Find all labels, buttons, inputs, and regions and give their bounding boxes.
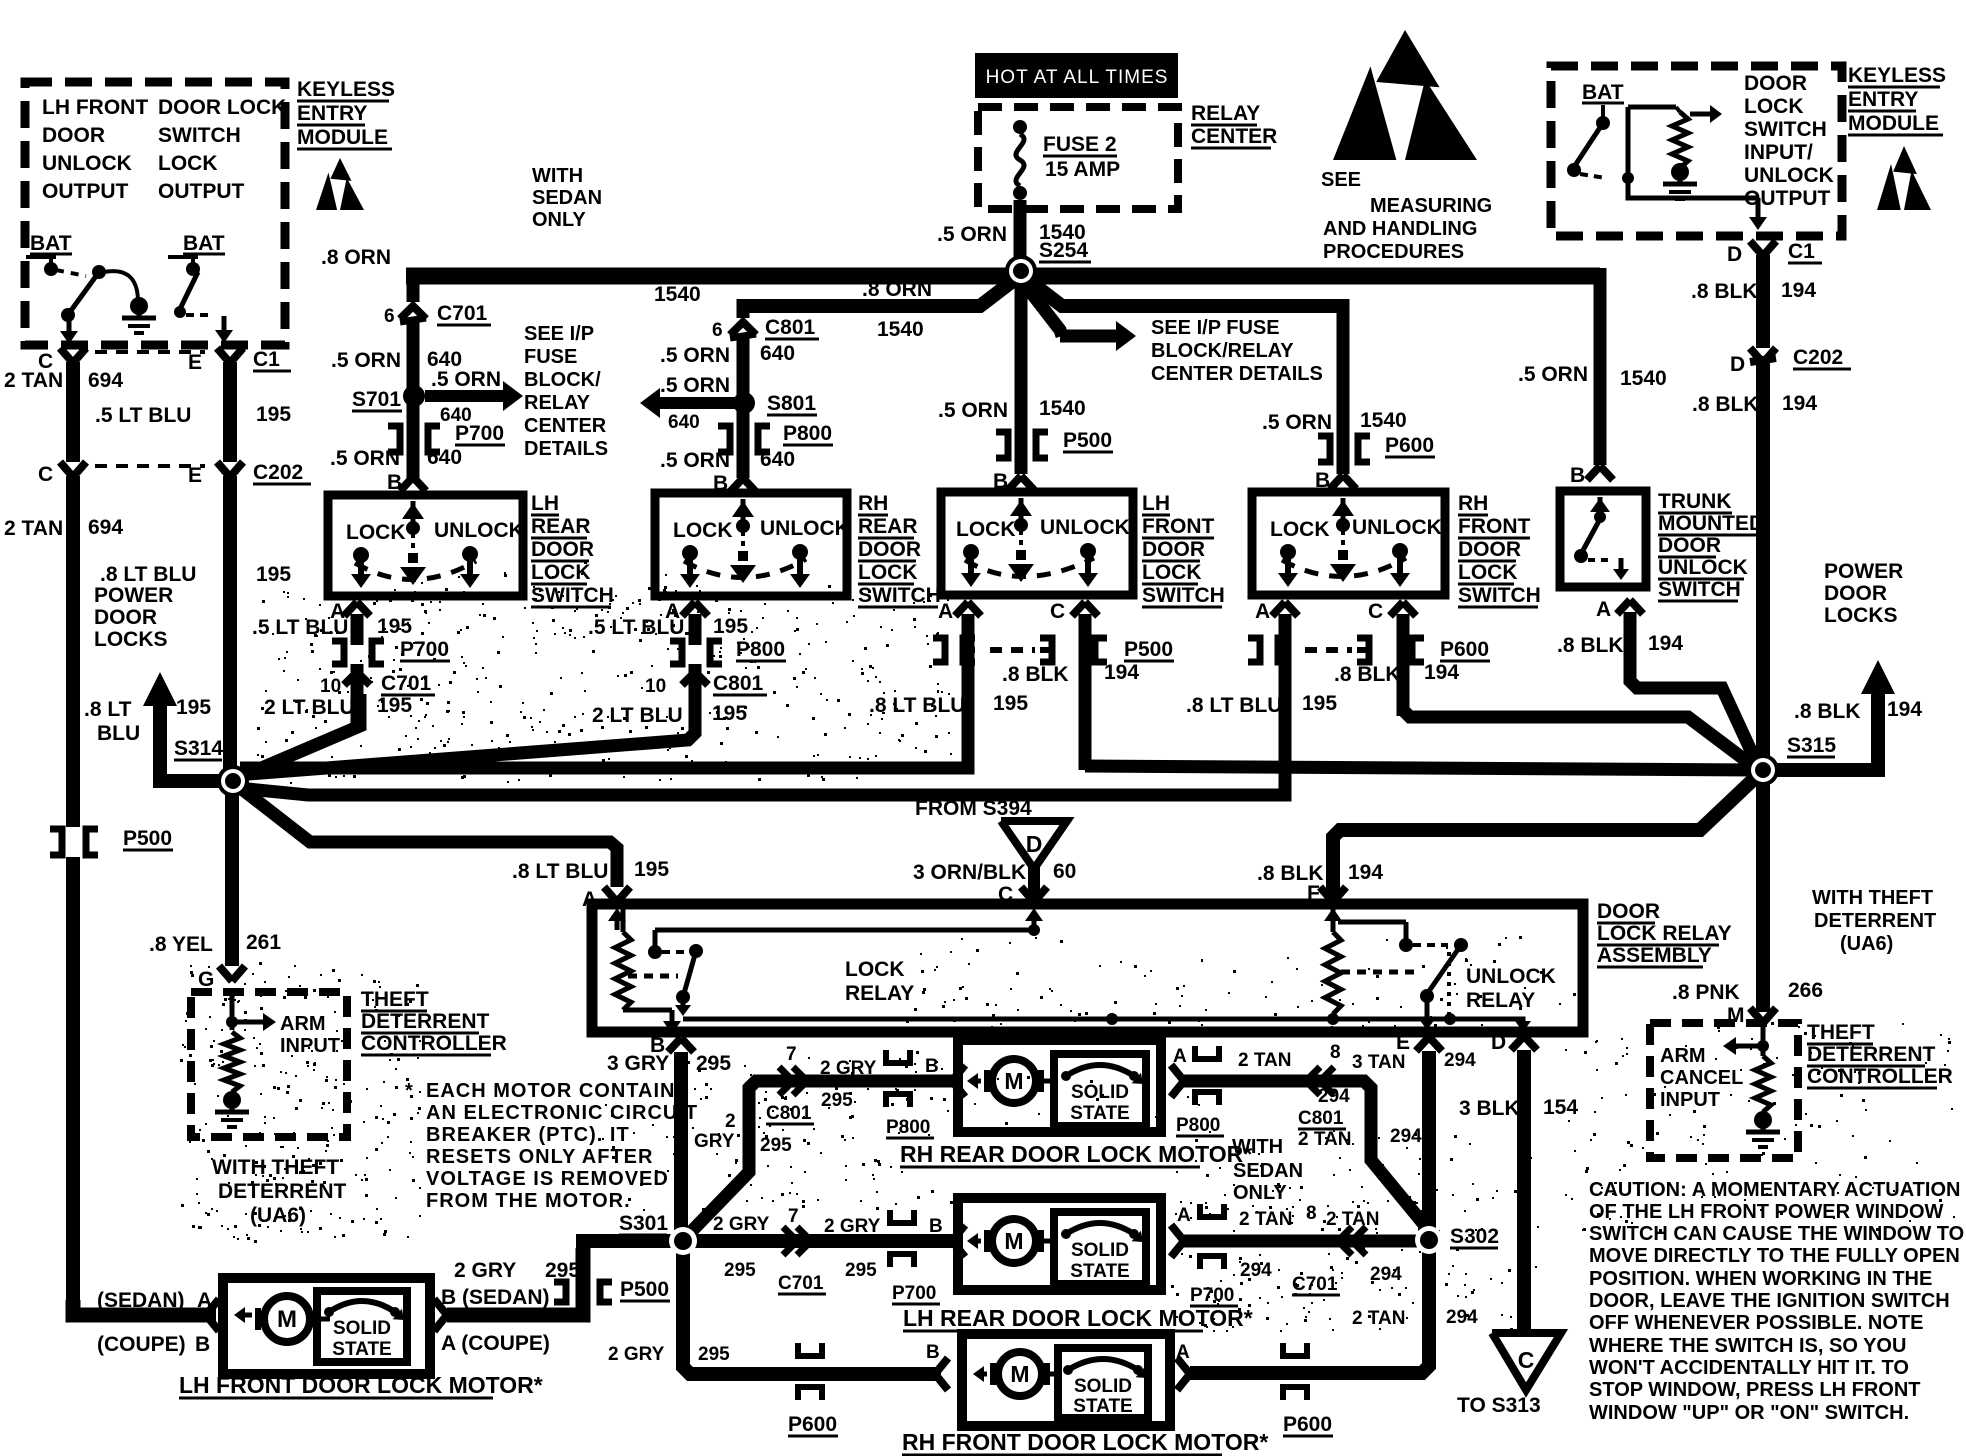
svg-text:VOLTAGE IS REMOVED: VOLTAGE IS REMOVED [426,1168,669,1190]
svg-text:294: 294 [1240,1260,1272,1281]
arm cancel input arrow [1723,1023,1769,1056]
BAT label (switch 2) [183,232,225,255]
keyless entry module (left) dashed box [25,82,285,345]
svg-text:195: 195 [256,403,291,426]
svg-text:P500: P500 [123,827,172,850]
svg-text:195: 195 [634,858,669,881]
svg-text:C202: C202 [1793,346,1843,369]
svg-text:CONTROLLER: CONTROLLER [361,1032,507,1055]
svg-text:ARM: ARM [280,1013,326,1035]
label S314 [174,737,223,760]
svg-text:S314: S314 [174,737,223,760]
svg-text:LOCK RELAY: LOCK RELAY [1597,922,1732,945]
wire bus to trunk switch B [1518,268,1667,465]
svg-text:STATE: STATE [1070,1261,1129,1282]
svg-text:261: 261 [246,931,281,954]
svg-text:194: 194 [1887,698,1922,721]
connector A (LH front) [869,600,1028,717]
svg-text:C1: C1 [1788,240,1815,263]
label WITH SEDAN ONLY [1232,1136,1303,1204]
svg-text:SOLID: SOLID [333,1318,391,1339]
svg-text:DETERRENT: DETERRENT [1807,1043,1936,1066]
svg-text:60: 60 [1053,860,1076,883]
arrow up power door locks (right) [1770,660,1922,777]
svg-text:.8 ORN: .8 ORN [321,246,391,269]
label RH FRONT DOOR LOCK MOTOR* [902,1429,1268,1455]
ground (left module) [104,271,156,333]
resistor (arm input) [224,1032,240,1092]
solid state arc (LH rear) [1061,1223,1143,1242]
svg-text:.5 ORN: .5 ORN [1262,411,1332,434]
svg-text:LOCK: LOCK [1270,518,1330,541]
svg-text:1540: 1540 [654,283,701,306]
svg-text:295: 295 [845,1260,877,1281]
wire fan S314 to LH FRONT switch A [240,622,968,768]
svg-text:8: 8 [1330,1042,1341,1063]
svg-text:M: M [1004,1228,1023,1254]
svg-text:M: M [1004,1068,1023,1094]
module text DOOR LOCK SWITCH LOCK OUTPUT [158,96,286,203]
svg-text:OFF WHENEVER POSSIBLE. NOTE: OFF WHENEVER POSSIBLE. NOTE [1589,1312,1923,1334]
connector P800 (feed) [660,408,833,478]
junction S315 (overlay) [1747,754,1779,786]
note EACH MOTOR CONTAINS [405,1080,698,1212]
svg-text:2 LT BLU: 2 LT BLU [592,704,683,727]
svg-text:S301: S301 [619,1212,668,1235]
svg-text:E: E [188,351,202,374]
switch S unlock-output [168,257,200,318]
wire LH front motor B to S301 [447,1248,583,1315]
svg-text:P700: P700 [892,1283,936,1304]
label S701 [352,388,402,411]
theft deterrent controller (right) dashed box [1650,1023,1798,1158]
svg-text:P600: P600 [1385,434,1434,457]
svg-text:S801: S801 [767,392,816,415]
svg-text:DOOR: DOOR [1744,72,1807,95]
ESD symbol (left module) [316,158,364,210]
connector P600 (below RH front, dashed) [1248,638,1490,662]
svg-text:P800: P800 [736,638,785,661]
svg-text:640: 640 [760,448,795,471]
svg-text:DOOR: DOOR [1597,900,1660,923]
svg-text:.8 BLK: .8 BLK [1692,393,1759,416]
svg-text:640: 640 [427,446,462,469]
svg-text:P500: P500 [1063,429,1112,452]
svg-text:SOLID: SOLID [1071,1240,1129,1261]
bus .8 ORN main [321,246,1600,306]
label ARM CANCEL INPUT [1660,1045,1743,1111]
label THEFT DETERRENT CONTROLLER (right) [1807,1021,1953,1088]
svg-text:AND HANDLING: AND HANDLING [1323,218,1477,240]
svg-text:A: A [1596,598,1611,621]
svg-text:.5 ORN: .5 ORN [431,368,501,391]
connector C701 (left, motor row) [713,1206,943,1304]
relay output line [683,1013,1523,1025]
svg-text:D: D [1727,243,1742,266]
wire S302 to RH front motor [1190,1240,1478,1373]
svg-text:1540: 1540 [1039,397,1086,420]
label WITH THEFT DETERRENT (UA6) [212,1156,347,1227]
label KEYLESS ENTRY MODULE (right) [1848,64,1946,135]
svg-text:B: B [925,1056,939,1077]
labels A 2 TAN (RH rear right) [1173,1042,1341,1071]
svg-text:194: 194 [1782,392,1817,415]
svg-text:E: E [188,464,202,487]
svg-text:640: 640 [668,412,700,433]
label TRUNK MOUNTED DOOR UNLOCK SWITCH [1658,490,1764,601]
svg-text:195: 195 [713,615,748,638]
arrow S801 to fuse block note [640,374,740,433]
triangle connector D FROM S394 [915,797,1067,869]
svg-text:CAUTION: A MOMENTARY ACTUATION: CAUTION: A MOMENTARY ACTUATION [1589,1179,1960,1201]
BAT label (right module) [1582,81,1624,104]
connector C801 (left, motor row) [766,1044,877,1124]
solid state box (LH front) [317,1291,407,1362]
svg-text:LOCK: LOCK [346,521,406,544]
label RH REAR DOOR LOCK MOTOR* [900,1141,1252,1167]
svg-text:.5 ORN: .5 ORN [937,223,1007,246]
svg-text:LOCK: LOCK [1142,561,1202,584]
svg-text:194: 194 [1781,279,1816,302]
svg-text:.8 PNK: .8 PNK [1672,981,1740,1004]
connector P700 (feed) [330,400,505,478]
svg-text:294: 294 [1446,1307,1478,1328]
svg-text:DOOR: DOOR [1658,534,1721,557]
labels A 2 TAN (LH rear right) [1177,1203,1379,1230]
svg-text:.5 ORN: .5 ORN [330,447,400,470]
svg-text:OUTPUT: OUTPUT [42,180,129,203]
ESD symbol (right module) [1877,146,1931,210]
motor M (LH front) [234,1296,330,1342]
connector P500 (below LH front, dashed) [933,638,1174,662]
wire relay B to S301 [607,1052,731,1241]
connector C triangle TO S313 [1457,1333,1561,1417]
motor M (LH rear) [967,1219,1054,1263]
connector A (LH rear) [252,600,412,645]
connector C801 pin 10 [592,664,767,727]
svg-text:F: F [1307,882,1320,905]
svg-text:P700: P700 [1190,1285,1234,1306]
svg-text:DOOR: DOOR [1458,538,1521,561]
connector C202 row [38,461,311,487]
wire relay D to connector C triangle [1459,1050,1578,1333]
door lock relay assembly box [592,904,1583,1032]
connector C701 (right, motor row) [1190,1227,1402,1306]
svg-text:DOOR: DOOR [42,124,105,147]
svg-text:MODULE: MODULE [297,126,388,149]
svg-text:.5 ORN: .5 ORN [331,349,401,372]
wire fan S314 to relay A [238,786,617,887]
svg-text:DOOR: DOOR [858,538,921,561]
label KEYLESS ENTRY MODULE (left) [297,78,395,149]
connector P600 (feed) [1318,434,1435,462]
scan noise (below note) [602,1050,961,1211]
svg-text:CENTER: CENTER [524,415,607,437]
svg-text:STATE: STATE [1070,1103,1129,1124]
junction S314 [218,766,248,796]
connector A (RH rear) [588,600,748,645]
svg-text:INPUT/: INPUT/ [1744,141,1813,164]
svg-text:FRONT: FRONT [1458,515,1530,538]
unlock output dashes and arrow [186,315,233,343]
solid state arc (RH rear) [1061,1065,1143,1084]
trunk switch internals [1574,497,1629,580]
svg-text:BREAKER (PTC). IT: BREAKER (PTC). IT [426,1124,630,1146]
BAT label (switch 1) [30,232,72,255]
svg-text:M: M [1010,1361,1029,1387]
svg-text:694: 694 [88,369,123,392]
ground (theft left) [215,1091,249,1127]
wire LH rear motor to S302 [1184,1235,1429,1248]
svg-text:ENTRY: ENTRY [297,102,367,125]
svg-text:C701: C701 [778,1273,824,1294]
connector B (LH front switch) [993,470,1034,493]
svg-text:G: G [198,968,214,991]
label UNLOCK RELAY [1466,965,1556,1012]
motor M (RH front) [973,1352,1058,1396]
svg-text:OF THE LH FRONT POWER WINDOW: OF THE LH FRONT POWER WINDOW [1589,1201,1944,1223]
svg-text:295: 295 [821,1090,853,1111]
svg-text:STATE: STATE [1073,1396,1132,1417]
svg-text:.5 ORN: .5 ORN [660,449,730,472]
wire .5 LT BLU 195 [95,362,291,462]
svg-text:C801: C801 [1298,1108,1344,1129]
module text LH FRONT DOOR UNLOCK OUTPUT [42,96,148,203]
junction S314 (overlay) [217,765,249,797]
svg-text:(UA6): (UA6) [1840,933,1893,955]
svg-text:HOT AT ALL TIMES: HOT AT ALL TIMES [986,67,1169,88]
label DOOR LOCK RELAY ASSEMBLY [1597,900,1732,967]
svg-text:LH FRONT DOOR LOCK MOTOR*: LH FRONT DOOR LOCK MOTOR* [179,1372,543,1398]
svg-text:S315: S315 [1787,734,1836,757]
svg-text:P800: P800 [783,422,832,445]
svg-text:SWITCH: SWITCH [531,584,614,607]
svg-text:294: 294 [1370,1264,1402,1285]
svg-text:15 AMP: 15 AMP [1045,158,1120,181]
connector C701 pin 10 [264,664,435,730]
connector C801 (right, motor row) [1176,1067,1422,1150]
svg-text:LOCK: LOCK [1744,95,1804,118]
svg-text:BAT: BAT [183,232,225,255]
svg-text:D: D [1026,831,1043,857]
svg-text:3 TAN: 3 TAN [1352,1052,1405,1073]
connector B (RH front switch) [1315,469,1356,492]
svg-text:.5 LT BLU: .5 LT BLU [252,616,348,639]
caution note text [1589,1179,1964,1424]
wire S254 to LH front switch B [938,280,1086,474]
svg-text:194: 194 [1348,861,1383,884]
svg-text:195: 195 [377,694,412,717]
svg-text:ONLY: ONLY [532,209,586,231]
svg-text:FRONT: FRONT [1142,515,1214,538]
svg-text:STATE: STATE [332,1339,391,1360]
svg-text:WITH THEFT: WITH THEFT [1812,887,1933,909]
svg-text:.8 LT BLU: .8 LT BLU [1186,694,1282,717]
svg-text:WITH: WITH [532,165,583,187]
svg-text:D: D [1730,353,1745,376]
svg-text:.8 BLK: .8 BLK [1691,280,1758,303]
connector B (trunk switch) [1570,464,1613,487]
label POWER DOOR LOCKS (right) [1824,560,1903,627]
connector B (LH rear switch) [387,471,426,494]
unlock relay linkage (dashed) [1341,970,1415,975]
svg-text:STOP WINDOW, PRESS LH FRONT: STOP WINDOW, PRESS LH FRONT [1589,1379,1921,1401]
svg-text:S701: S701 [352,388,401,411]
svg-text:.5 ORN: .5 ORN [660,344,730,367]
label RELAY CENTER [1191,102,1277,148]
svg-text:CONTROLLER: CONTROLLER [1807,1065,1953,1088]
svg-text:LH FRONT: LH FRONT [42,96,148,119]
svg-text:UNLOCK: UNLOCK [1466,965,1556,988]
svg-text:(UA6): (UA6) [250,1204,306,1227]
svg-text:A (COUPE): A (COUPE) [441,1332,550,1355]
svg-text:.5 ORN: .5 ORN [938,399,1008,422]
svg-text:KEYLESS: KEYLESS [1848,64,1946,87]
svg-text:S302: S302 [1450,1225,1499,1248]
solid state box (LH rear) [1054,1212,1146,1284]
unlock relay contact branch [1338,922,1413,952]
svg-text:SOLID: SOLID [1074,1376,1132,1397]
svg-text:DOOR, LEAVE THE IGNITION SWITC: DOOR, LEAVE THE IGNITION SWITCH [1589,1290,1950,1312]
switch S lock-output contact [26,257,58,276]
svg-text:BAT: BAT [30,232,72,255]
svg-text:DETERRENT: DETERRENT [361,1010,490,1033]
svg-text:INPUT: INPUT [280,1035,340,1057]
LH rear door lock motor box [958,1198,1161,1290]
svg-text:.8 BLK: .8 BLK [1334,663,1401,686]
connector A (RH front) [1186,600,1337,717]
unlock relay armature [1413,938,1468,1030]
svg-text:LOCKS: LOCKS [94,628,168,651]
wire trunk A to S315 [1630,612,1758,766]
motor entry arrow (RH front) [926,1342,948,1390]
svg-text:P500: P500 [1124,638,1173,661]
svg-text:SEE I/P FUSE: SEE I/P FUSE [1151,317,1280,339]
svg-text:SWITCH: SWITCH [158,124,241,147]
connector D (relay bottom) [1491,1031,1537,1054]
svg-text:SWITCH: SWITCH [1458,584,1541,607]
svg-text:194: 194 [1648,632,1683,655]
svg-text:CANCEL: CANCEL [1660,1067,1743,1089]
motor entry arrow (LH front left) [206,1299,219,1331]
svg-text:P600: P600 [1283,1413,1332,1436]
connector B (RH rear switch) [713,472,756,495]
svg-text:B: B [195,1333,210,1356]
module internal node wire [1622,105,1722,184]
note SEE I/P FUSE BLOCK/RELAY CENTER DETAILS (left) [524,323,608,460]
arrow up POWER DOOR LOCKS feed [84,672,233,788]
svg-text:WITH THEFT: WITH THEFT [212,1156,339,1179]
svg-text:2 GRY: 2 GRY [824,1216,881,1237]
junction S301 [674,1232,692,1250]
svg-text:A: A [582,888,597,911]
svg-text:2 GRY: 2 GRY [608,1344,665,1365]
svg-text:P800: P800 [886,1117,930,1138]
svg-text:.5 LT BLU: .5 LT BLU [95,404,191,427]
svg-text:UNLOCK: UNLOCK [1352,516,1442,539]
label S315 [1787,734,1836,757]
bus .8 ORN branch right [1028,280,1343,306]
svg-text:(COUPE): (COUPE) [97,1333,186,1356]
label SEDAN/COUPE pins [97,1289,212,1356]
label ARM INPUT [280,1013,340,1057]
arm input wire + arrow [226,992,276,1031]
label DOOR LOCK SWITCH INPUT/UNLOCK OUTPUT [1744,72,1834,210]
svg-text:OUTPUT: OUTPUT [1744,187,1831,210]
svg-text:2 TAN: 2 TAN [1238,1050,1291,1071]
connector P500 (motor feed) [554,1278,670,1302]
label S801 [767,392,817,415]
motor exit arrow (LH rear) [1171,1225,1184,1257]
wire S301 to RH rear motor [687,1081,958,1236]
module output wire [1628,182,1767,230]
label LH REAR DOOR LOCK MOTOR* [903,1305,1253,1331]
svg-text:LOCK: LOCK [858,561,918,584]
svg-text:P500: P500 [620,1278,669,1301]
svg-text:LH REAR DOOR LOCK MOTOR*: LH REAR DOOR LOCK MOTOR* [903,1305,1253,1331]
svg-text:C801: C801 [766,1103,812,1124]
label WITH THEFT DETERRENT (UA6) right [1812,887,1936,955]
svg-text:*: * [405,1080,413,1102]
svg-text:UNLOCK: UNLOCK [434,519,524,542]
svg-text:LOCK: LOCK [158,152,218,175]
ESD symbol (top middle) [1333,30,1477,160]
lock relay coil [615,904,681,1034]
svg-text:DOOR: DOOR [531,538,594,561]
LH rear door lock switch [328,495,524,596]
svg-text:POWER: POWER [94,584,173,607]
connector C701 pin 6 [384,302,491,327]
svg-text:SWITCH: SWITCH [1658,578,1741,601]
motor exit arrow (LH front right) [434,1299,447,1331]
svg-text:LOCK: LOCK [673,519,733,542]
label 2 GRY 295 (riser) [694,1111,792,1156]
label connector A (relay top) [512,858,669,911]
motor entry arrow (LH rear) [952,1225,965,1257]
svg-text:RELAY: RELAY [845,982,914,1005]
svg-text:REAR: REAR [858,515,918,538]
svg-text:.8 ORN: .8 ORN [862,278,932,301]
solid state arc (RH front) [1063,1359,1147,1378]
relay F entry arrow [1324,908,1342,930]
svg-text:195: 195 [993,692,1028,715]
svg-text:C801: C801 [765,316,816,339]
svg-text:10: 10 [320,676,341,697]
connector A (trunk) [1557,598,1683,657]
label RH REAR DOOR LOCK SWITCH [858,492,941,607]
svg-text:SWITCH: SWITCH [858,584,941,607]
wire bus2 to RH front switch B [1262,299,1407,474]
svg-text:LH: LH [1142,492,1170,515]
svg-text:UNLOCK: UNLOCK [1040,516,1130,539]
svg-text:MOUNTED: MOUNTED [1658,512,1764,535]
svg-text:195: 195 [1302,692,1337,715]
connector P800 half (motor row) [886,1050,939,1138]
svg-text:2 TAN: 2 TAN [4,369,63,392]
svg-text:295: 295 [698,1344,730,1365]
motor entry arrow (RH rear) [952,1065,965,1097]
svg-text:A: A [1173,1046,1187,1067]
wire RH rear motor to S302 [1184,1081,1431,1233]
connector C1 (right) [1727,240,1822,266]
note SEE MEASURING AND HANDLING PROCEDURES [1321,169,1492,263]
svg-text:RH: RH [1458,492,1488,515]
svg-text:DOOR LOCK: DOOR LOCK [158,96,286,119]
wire bus to C701 (6) [407,268,420,302]
svg-text:C: C [1050,600,1065,623]
svg-text:(SEDAN): (SEDAN) [97,1289,185,1312]
svg-text:B: B [929,1216,943,1237]
